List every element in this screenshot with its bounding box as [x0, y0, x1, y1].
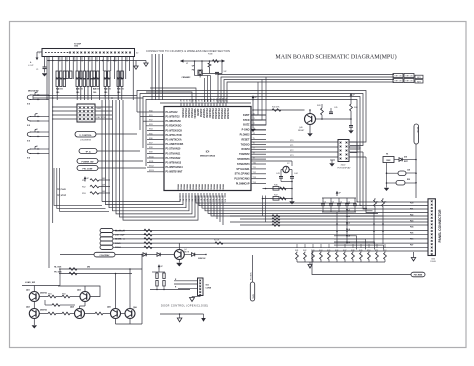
svg-text:XT3: XT3 [290, 155, 293, 157]
svg-text:KS2: KS2 [149, 120, 153, 122]
svg-text:T12: T12 [253, 172, 256, 174]
svg-text:KS3: KS3 [149, 124, 153, 126]
svg-text:P22/AN: P22/AN [183, 183, 186, 191]
svg-text:C5: C5 [340, 202, 342, 204]
svg-text:P1-ST0/AN10: P1-ST0/AN10 [166, 148, 182, 151]
svg-text:P1-WSTBY/INT: P1-WSTBY/INT [166, 171, 183, 174]
svg-text:A13: A13 [219, 98, 222, 101]
svg-text:P1-RDATA/SO: P1-RDATA/SO [166, 125, 182, 128]
svg-text:GSM 10K: GSM 10K [198, 258, 206, 260]
svg-text:KVDT: KVDT [243, 114, 250, 117]
svg-text:XO/KS6: XO/KS6 [199, 109, 201, 118]
svg-text:P15/KS13: P15/KS13 [220, 109, 222, 120]
svg-text:C40: C40 [76, 91, 79, 94]
svg-text:KEY_IN: KEY_IN [406, 76, 413, 78]
svg-text:P1-ANS/TXCKB: P1-ANS/TXCKB [166, 143, 184, 146]
svg-text:MAIN BOARD SCHEMATIC DIAGRAM(M: MAIN BOARD SCHEMATIC DIAGRAM(MPU) [275, 54, 396, 61]
svg-text:2SB766: 2SB766 [40, 293, 47, 295]
svg-text:R40 1K: R40 1K [56, 76, 63, 79]
svg-text:KEY A: KEY A [416, 127, 419, 133]
svg-text:R4 1K: R4 1K [214, 240, 220, 242]
svg-text:P.CONN: P.CONN [250, 272, 252, 280]
svg-text:VDD/KS4: VDD/KS4 [193, 109, 196, 120]
svg-text:P1-VT0/AN12: P1-VT0/AN12 [166, 157, 182, 160]
svg-text:P32/AN: P32/AN [213, 183, 216, 191]
svg-text:P26/AN: P26/AN [195, 183, 198, 191]
svg-text:P1-HT0/A2: P1-HT0/A2 [166, 111, 179, 114]
svg-text:PD7: PD7 [410, 245, 413, 247]
svg-text:KS7: KS7 [149, 143, 153, 145]
svg-text:FOR DISPLAY: FOR DISPLAY [337, 167, 351, 170]
svg-text:KS4: KS4 [149, 129, 153, 131]
svg-text:A4: A4 [192, 99, 195, 101]
svg-text:KS8: KS8 [149, 147, 153, 149]
svg-text:C40: C40 [93, 91, 96, 94]
svg-text:RB1: RB1 [48, 294, 52, 296]
svg-text:R40 1K: R40 1K [93, 76, 100, 79]
svg-text:P1-ST0/AN11: P1-ST0/AN11 [166, 152, 181, 155]
svg-text:R5: R5 [376, 202, 378, 204]
svg-text:PD2: PD2 [410, 215, 413, 217]
svg-text:C40: C40 [104, 91, 107, 94]
svg-text:A8: A8 [204, 99, 207, 101]
svg-text:R5: R5 [384, 202, 386, 204]
svg-text:PD1: PD1 [410, 209, 413, 211]
svg-text:C40: C40 [56, 91, 59, 94]
svg-text:L OUT: L OUT [28, 65, 34, 67]
svg-text:KEY_IN: KEY_IN [406, 81, 413, 83]
svg-text:XT0: XT0 [290, 140, 293, 142]
svg-text:T5: T5 [253, 138, 255, 140]
svg-text:KS6: KS6 [149, 138, 153, 140]
svg-text:A2: A2 [186, 99, 189, 101]
svg-text:COIL/TRAY: COIL/TRAY [99, 254, 110, 257]
svg-text:P11/KS9: P11/KS9 [208, 109, 210, 119]
svg-text:A9: A9 [207, 99, 210, 101]
svg-text:P4-1: P4-1 [346, 209, 350, 212]
svg-text:B8: B8 [202, 199, 204, 201]
svg-text:STYLE/AN1: STYLE/AN1 [236, 168, 250, 171]
svg-text:BUZZ: BUZZ [243, 124, 250, 127]
svg-text:RXD/SI: RXD/SI [242, 148, 250, 151]
svg-text:P30/AN: P30/AN [207, 183, 210, 191]
svg-text:POWER_SW: POWER_SW [82, 161, 94, 163]
svg-text:P4-4B: P4-4B [430, 261, 436, 263]
svg-text:A14: A14 [222, 98, 225, 101]
svg-text:TP_STOP: TP_STOP [57, 195, 67, 197]
svg-text:MUTE: MUTE [184, 252, 190, 254]
svg-text:A12: A12 [216, 98, 219, 101]
svg-text:P31/AN: P31/AN [210, 183, 213, 191]
svg-text:KEY_IN: KEY_IN [395, 76, 402, 78]
svg-text:P17/KS15: P17/KS15 [226, 109, 228, 120]
svg-text:KS0: KS0 [149, 110, 153, 112]
svg-text:F16M: F16M [208, 54, 213, 56]
svg-text:PD3: PD3 [410, 221, 413, 223]
svg-text:TO DSP: TO DSP [74, 43, 82, 45]
svg-text:Q40: Q40 [299, 127, 303, 129]
svg-text:B14: B14 [220, 199, 222, 202]
svg-text:PLONO2: PLONO2 [240, 134, 251, 137]
svg-text:P14/KS12: P14/KS12 [217, 109, 220, 120]
svg-text:B12: B12 [214, 199, 216, 202]
svg-text:C28: C28 [407, 170, 410, 172]
svg-text:PD6: PD6 [410, 239, 413, 241]
svg-text:TA_SUS: TA_SUS [54, 266, 62, 269]
svg-text:P21/AN: P21/AN [180, 183, 183, 191]
svg-text:P4-6: P4-6 [346, 241, 350, 244]
svg-text:PD4: PD4 [410, 226, 413, 229]
svg-text:T10: T10 [253, 162, 256, 164]
svg-text:PW_CONT: PW_CONT [83, 168, 94, 170]
svg-text:T4: T4 [253, 133, 255, 135]
svg-text:KS9: KS9 [149, 152, 153, 154]
svg-text:T13: T13 [253, 177, 256, 179]
svg-text:SQCK: SQCK [65, 56, 67, 62]
svg-text:SYNC/INT4: SYNC/INT4 [237, 163, 250, 166]
svg-text:TP_PLAY: TP_PLAY [57, 188, 66, 191]
svg-text:P1-WTCK/SCK: P1-WTCK/SCK [166, 129, 183, 132]
svg-text:XT1: XT1 [290, 145, 293, 147]
svg-text:SQCK: SQCK [80, 56, 82, 62]
svg-text:P13/KS11: P13/KS11 [214, 109, 216, 120]
svg-text:R40 47K: R40 47K [272, 107, 280, 109]
svg-text:C5: C5 [324, 202, 326, 204]
svg-text:P-ONO: P-ONO [242, 129, 250, 132]
svg-text:P24/AN: P24/AN [189, 183, 192, 191]
svg-text:P1-WDATA/SI: P1-WDATA/SI [166, 120, 182, 123]
svg-text:B7: B7 [199, 199, 201, 201]
svg-text:SQCK: SQCK [95, 56, 97, 62]
svg-text:P4-2: P4-2 [346, 215, 350, 218]
svg-text:P03/KS3: P03/KS3 [190, 109, 192, 119]
svg-text:R43: R43 [317, 105, 320, 107]
svg-text:PLSYNC/AN3: PLSYNC/AN3 [234, 178, 250, 181]
svg-text:P1-WT0/AN13: P1-WT0/AN13 [166, 162, 182, 165]
svg-text:MECHA SW: MECHA SW [28, 90, 39, 93]
svg-text:P1-WT0/TO2: P1-WT0/TO2 [166, 116, 181, 119]
svg-text:C40: C40 [117, 91, 120, 94]
svg-text:P01/KS1: P01/KS1 [184, 109, 186, 119]
svg-text:A1: A1 [183, 99, 186, 101]
svg-text:R40 1K: R40 1K [104, 76, 111, 79]
svg-text:CERAMIC: CERAMIC [182, 76, 191, 79]
svg-text:P29/AN: P29/AN [204, 183, 207, 191]
svg-text:KS11: KS11 [149, 161, 153, 163]
svg-text:CONNECTOR TO CD AMP(S & WIRELE: CONNECTOR TO CD AMP(S & WIRELESS DECODER… [146, 49, 230, 53]
svg-text:S01: S01 [206, 285, 209, 287]
svg-text:P25/AN: P25/AN [192, 183, 195, 191]
svg-text:RESET: RESET [242, 138, 251, 141]
svg-text:PD0: PD0 [410, 203, 413, 205]
svg-text:CONN: CONN [206, 288, 212, 290]
svg-text:TXD/SO: TXD/SO [241, 143, 250, 146]
svg-text:B13: B13 [217, 199, 219, 202]
svg-text:TP_A: TP_A [85, 150, 91, 153]
svg-text:RB2: RB2 [62, 294, 66, 296]
svg-text:P33/AN: P33/AN [216, 183, 219, 191]
svg-text:SQCK: SQCK [88, 56, 90, 62]
svg-text:KS5: KS5 [149, 133, 153, 135]
svg-text:TRAY: TRAY [252, 293, 255, 299]
svg-text:XI/KS5: XI/KS5 [196, 109, 198, 117]
svg-text:KS13: KS13 [149, 170, 154, 172]
svg-text:P4-3: P4-3 [346, 222, 350, 225]
svg-text:P4-5: P4-5 [346, 235, 350, 238]
svg-text:D18: D18 [404, 157, 407, 159]
svg-text:KS1: KS1 [149, 115, 153, 117]
svg-text:SQCK: SQCK [125, 56, 127, 62]
svg-text:T6: T6 [253, 143, 255, 145]
svg-text:KEY_IN: KEY_IN [395, 81, 402, 83]
svg-text:A0: A0 [180, 99, 183, 101]
svg-text:P00/KS0: P00/KS0 [181, 109, 183, 119]
svg-text:SQCK: SQCK [107, 56, 109, 62]
svg-text:T8: T8 [253, 153, 255, 155]
svg-text:C45: C45 [334, 107, 337, 109]
svg-text:SQCK: SQCK [73, 56, 75, 62]
svg-text:DOOR CONTROL (OPEN/CLOSE): DOOR CONTROL (OPEN/CLOSE) [161, 305, 208, 308]
svg-text:P02/KS2: P02/KS2 [187, 109, 189, 119]
svg-text:STYLCP/AN2: STYLCP/AN2 [235, 173, 251, 176]
svg-text:C5: C5 [356, 202, 358, 204]
svg-text:H1: H1 [386, 154, 388, 156]
svg-text:TC8/INT2: TC8/INT2 [239, 153, 250, 156]
svg-text:P35/AN: P35/AN [222, 183, 225, 191]
svg-text:R40 1K: R40 1K [117, 76, 124, 79]
svg-text:A7: A7 [201, 99, 204, 101]
svg-text:A15: A15 [225, 98, 228, 101]
svg-text:P20/AN: P20/AN [177, 183, 180, 191]
svg-text:B15: B15 [223, 199, 225, 202]
svg-text:SQCK: SQCK [114, 56, 116, 62]
svg-text:FM_REM: FM_REM [414, 275, 423, 277]
svg-text:P28/AN: P28/AN [201, 183, 204, 191]
svg-text:LOAD_SW: LOAD_SW [25, 281, 35, 284]
svg-text:P1-WST0/AN14: P1-WST0/AN14 [166, 166, 184, 169]
svg-text:STOP/INT3: STOP/INT3 [237, 158, 250, 161]
svg-text:P4-0: P4-0 [346, 202, 350, 205]
svg-text:A10: A10 [210, 98, 213, 101]
svg-text:DM: DM [87, 267, 90, 269]
svg-text:R44: R44 [354, 107, 357, 109]
svg-text:RESET: RESET [298, 130, 305, 132]
svg-text:STCD: STCD [243, 119, 250, 122]
svg-text:PD5: PD5 [410, 233, 413, 235]
svg-text:T9: T9 [253, 157, 255, 159]
svg-text:A11: A11 [213, 98, 216, 101]
svg-text:B11: B11 [211, 199, 213, 202]
svg-text:2SB766: 2SB766 [40, 310, 47, 312]
svg-text:SQCK: SQCK [58, 56, 60, 62]
svg-text:A5: A5 [195, 99, 198, 101]
svg-text:RMC: RMC [386, 160, 391, 162]
svg-text:X_CONTROL: X_CONTROL [79, 135, 92, 137]
svg-text:C5: C5 [332, 202, 334, 204]
svg-text:P12/KS10: P12/KS10 [211, 109, 213, 120]
svg-text:MN662710RA6: MN662710RA6 [200, 155, 216, 158]
svg-text:B9: B9 [205, 199, 207, 201]
svg-text:R29: R29 [407, 179, 410, 181]
svg-text:A6: A6 [198, 99, 201, 101]
svg-text:C1: C1 [36, 69, 38, 71]
svg-text:KS10: KS10 [149, 156, 154, 158]
svg-text:P1-AN/TXCKA: P1-AN/TXCKA [166, 139, 182, 142]
svg-text:B10: B10 [208, 199, 210, 202]
svg-text:KS12: KS12 [149, 166, 154, 168]
svg-text:P23/AN: P23/AN [186, 183, 189, 191]
svg-text:LOUDNESS: LOUDNESS [80, 140, 92, 142]
svg-text:P1-WTCL/TXD: P1-WTCL/TXD [166, 134, 182, 137]
svg-text:T14: T14 [253, 182, 256, 184]
svg-text:T11: T11 [253, 167, 256, 169]
svg-text:P10/KS8: P10/KS8 [205, 109, 207, 119]
svg-text:XT2: XT2 [290, 150, 293, 152]
svg-text:PANEL CONNECTOR: PANEL CONNECTOR [438, 209, 442, 243]
svg-text:TR_SUS: TR_SUS [54, 272, 62, 274]
svg-text:P16/KS14: P16/KS14 [223, 109, 226, 120]
svg-text:PLONMCAP: PLONMCAP [236, 183, 250, 186]
svg-text:P27/AN: P27/AN [198, 183, 201, 191]
svg-text:T7: T7 [253, 148, 255, 150]
svg-text:P34/AN: P34/AN [219, 183, 222, 191]
svg-text:A3: A3 [189, 99, 192, 101]
svg-text:VSS/KS7: VSS/KS7 [202, 109, 204, 119]
svg-text:R40 1K: R40 1K [76, 76, 83, 79]
